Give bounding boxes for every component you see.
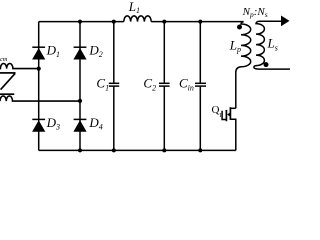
svg-text:Np:Ns: Np:Ns <box>242 6 268 19</box>
svg-text:cm: cm <box>0 56 8 63</box>
svg-text:1: 1 <box>219 112 222 119</box>
